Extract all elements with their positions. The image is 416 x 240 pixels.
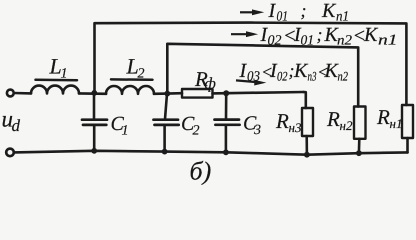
terminal input bottom: [6, 149, 14, 157]
svg-text:d: d: [12, 116, 21, 135]
svg-text:п2: п2: [338, 69, 349, 84]
wire rail Rf to corner: [213, 92, 304, 93]
svg-text:;: ;: [317, 25, 323, 45]
wire rail L1-L2: [79, 92, 106, 95]
wire Rn3 bottom: [305, 136, 308, 155]
svg-text:п1: п1: [378, 33, 398, 49]
capacitor C2 lead bottom: [163, 126, 166, 152]
svg-text:I: I: [268, 0, 277, 22]
inductor L1 core bar: [36, 79, 78, 82]
junction C3 bottom: [223, 149, 229, 155]
svg-text:1: 1: [61, 67, 68, 82]
capacitor C1 lead bottom: [93, 126, 96, 151]
svg-text:п3: п3: [308, 69, 317, 84]
wire top loop 2 (to Rn2): [167, 44, 358, 107]
svg-text:R: R: [326, 107, 340, 131]
wire top rail left: [14, 92, 31, 95]
svg-text:03: 03: [247, 70, 260, 85]
capacitor C2 lead top: [165, 94, 167, 119]
svg-text:02: 02: [277, 69, 288, 84]
svg-text:R: R: [376, 105, 390, 129]
svg-text:02: 02: [268, 34, 282, 49]
svg-text:1: 1: [122, 124, 129, 139]
bottom rail: [14, 151, 408, 155]
resistor Rf: [182, 89, 213, 98]
svg-text:б): б): [190, 157, 212, 186]
wire drop to Rn3: [304, 92, 306, 108]
inductor L1: [31, 86, 79, 94]
svg-text:К: К: [363, 24, 379, 46]
svg-text:п2: п2: [337, 34, 352, 49]
inductor L2 core bar: [111, 78, 153, 81]
wire top loop 1 (to Rn1): [95, 23, 407, 105]
junction Rn3 bottom: [304, 152, 310, 158]
svg-text:н3: н3: [289, 120, 302, 135]
capacitor C3 lead bottom: [225, 125, 228, 152]
terminal input top: [7, 90, 14, 97]
arrow label3 (under I03): [236, 80, 255, 82]
junction node C top: [223, 90, 229, 96]
svg-text:01: 01: [277, 10, 289, 25]
svg-text:3: 3: [253, 123, 261, 138]
junction C2 bottom: [162, 149, 168, 155]
arrow label1: [240, 11, 254, 13]
capacitor C2 plates: [154, 118, 179, 121]
junction node A top: [91, 90, 97, 96]
svg-text:R: R: [275, 109, 289, 133]
svg-text:01: 01: [301, 34, 315, 49]
svg-text:н2: н2: [340, 118, 353, 133]
resistor Rn1: [402, 105, 413, 138]
wire Rn1 bottom: [406, 138, 409, 152]
svg-text:К: К: [321, 0, 337, 22]
svg-text:п1: п1: [336, 10, 349, 25]
svg-text:2: 2: [138, 67, 145, 82]
svg-text:ф: ф: [205, 76, 216, 93]
arrow label2: [231, 33, 248, 35]
resistor Rn2: [354, 107, 366, 139]
inductor L2: [106, 86, 154, 94]
wire rail L2 to Rf: [154, 92, 182, 95]
capacitor C1 lead top: [93, 93, 96, 119]
svg-text:2: 2: [193, 124, 200, 139]
svg-text:;: ;: [301, 1, 307, 21]
capacitor C1 plates: [82, 118, 107, 121]
junction C1 bottom: [91, 148, 97, 154]
junction node B top: [164, 91, 170, 97]
junction Rn2 bottom: [356, 150, 362, 156]
capacitor C3 plates: [215, 118, 240, 121]
capacitor C3 lead top: [225, 93, 228, 119]
resistor Rn3: [302, 108, 313, 136]
wire Rn2 bottom: [358, 139, 361, 153]
svg-text:н1: н1: [390, 116, 403, 131]
